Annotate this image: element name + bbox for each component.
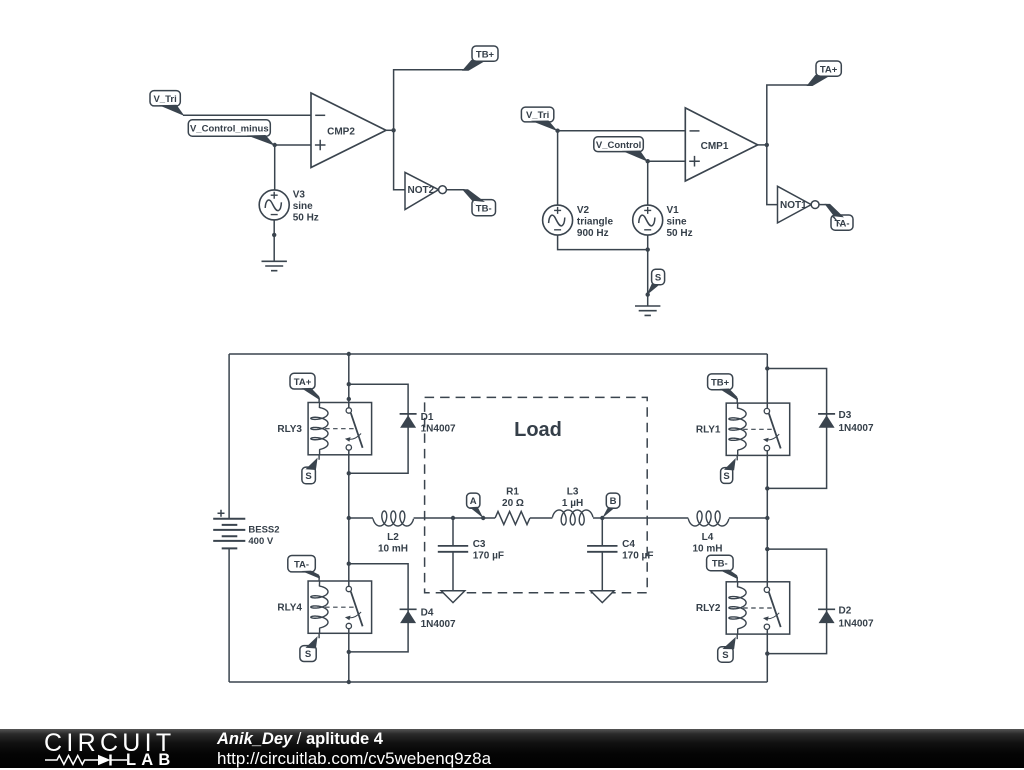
capacitor C3 170uF [438,518,504,591]
svg-text:RLY2: RLY2 [696,603,721,614]
node V_Tri right [555,129,559,133]
svg-text:TA+: TA+ [820,64,838,75]
svg-text:RLY1: RLY1 [696,424,721,435]
svg-text:TB+: TB+ [476,49,495,60]
flag TB- RLY2 [707,555,738,579]
wire V1 bottom to ground [647,235,649,295]
node C3 top [451,516,455,520]
flag TB+ [462,46,498,71]
op-amp CMP2 [311,93,386,168]
svg-text:V_Tri: V_Tri [526,110,549,121]
wire NOT1 to TA- [819,204,827,206]
flag S sources [647,269,665,295]
source V1 sine 50Hz [633,205,693,239]
svg-text:V_Control: V_Control [596,140,641,151]
node D1 top [347,382,351,386]
node D2 top [765,547,769,551]
wire D4 loop [349,564,408,652]
svg-text:C4: C4 [622,539,635,550]
node D3 bottom [765,486,769,490]
flag S RLY1 [721,458,736,483]
wire CMP1 output [758,144,767,146]
svg-text:L2: L2 [387,532,399,543]
wire D3 loop [767,369,826,489]
svg-text:V2: V2 [577,205,590,216]
wire D1 loop [349,384,408,473]
svg-text:10 mH: 10 mH [692,544,722,555]
svg-text:S: S [655,273,661,284]
svg-text:TA-: TA- [294,559,309,570]
load box dashed [425,397,648,592]
wire plus input CMP1 [648,160,686,162]
svg-text:RLY3: RLY3 [277,424,302,435]
svg-text:D1: D1 [421,412,434,423]
svg-text:1N4007: 1N4007 [839,423,874,434]
capacitor C4 170uF [587,518,653,591]
svg-text:50 Hz: 50 Hz [667,228,693,239]
ground C4 [591,591,615,603]
svg-text:RLY4: RLY4 [277,602,302,613]
svg-text:R1: R1 [506,487,519,498]
wire right bus [766,354,768,682]
flag V_Control [594,137,648,162]
svg-text:CMP1: CMP1 [701,141,729,152]
svg-text:S: S [305,471,311,482]
svg-text:D4: D4 [421,608,434,619]
svg-text:1N4007: 1N4007 [839,619,874,630]
node B anchor C4 [600,516,604,520]
relay RLY4 [277,576,371,638]
node CMP1 output [765,143,769,147]
source V3 sine 50Hz [259,190,319,224]
node mid left bus [347,516,351,520]
wire minus input CMP2 [183,114,311,116]
svg-text:V_Control_minus: V_Control_minus [190,124,269,135]
node D1 bottom [347,471,351,475]
node sources common [646,247,650,251]
wire L4 to right bus [729,517,767,519]
svg-text:triangle: triangle [577,216,614,227]
svg-text:170 µF: 170 µF [622,551,653,562]
flag TA- RLY4 [288,556,320,579]
relay RLY3 [277,398,371,460]
inverter NOT2 [405,172,446,209]
node S anchor [646,292,650,296]
svg-text:900 Hz: 900 Hz [577,228,609,239]
wire L2 to R1 [414,517,496,519]
svg-text:L4: L4 [702,532,714,543]
wire top rail [229,353,767,355]
wire L3 to L4 [593,517,688,519]
wire V2 bottom to V1 bottom [558,235,648,250]
node D4 top [347,562,351,566]
wire bottom rail [229,681,767,683]
wire to TA+ [767,85,810,145]
svg-text:Load: Load [514,419,562,441]
node A anchor [481,516,485,520]
node D2 bottom [765,651,769,655]
wire CMP2 output [386,129,394,131]
resistor R1 20ohm [495,487,530,525]
relay RLY1 [696,398,790,460]
node bottom rail left bus [347,680,351,684]
wire minus input CMP1 [558,130,686,132]
inductor L2 10mH [373,511,414,555]
wire plus input CMP2 [275,144,311,146]
svg-text:10 mH: 10 mH [378,544,408,555]
ground C3 [441,591,465,603]
inverter NOT1 [778,186,819,223]
svg-text:TB-: TB- [476,203,492,214]
svg-text:V3: V3 [293,190,306,201]
flag TA+ [807,61,842,86]
source V2 triangle 900Hz [543,205,614,239]
node top rail left bus [347,352,351,356]
svg-text:TA+: TA+ [294,377,312,388]
footer bar [0,729,1024,768]
svg-text:S: S [723,471,729,482]
svg-text:sine: sine [293,201,313,212]
svg-text:C3: C3 [473,539,486,550]
svg-text:B: B [610,496,617,507]
node D4 bottom [347,650,351,654]
wire to NOT2 [394,130,405,189]
battery BESS2 400V [213,354,279,682]
flag TB- [462,189,496,216]
svg-text:20 Ω: 20 Ω [502,498,524,509]
node RLY3 pin [347,397,351,401]
flag A [467,493,484,518]
node below V3 [272,233,276,237]
wire to V3 [274,145,276,190]
inductor L4 10mH [688,511,729,555]
svg-text:V_Tri: V_Tri [153,94,176,105]
svg-text:D2: D2 [839,606,852,617]
diode D3 1N4007 [818,410,874,434]
wire V_Tri to V2 [557,131,559,206]
relay RLY2 [696,577,790,639]
flag S RLY3 [302,458,318,484]
ground V3 [262,261,287,270]
flag TA- [825,204,854,230]
svg-text:1N4007: 1N4007 [421,424,456,435]
svg-text:S: S [722,650,728,661]
wire left bus [348,354,350,682]
flag V_Tri right [521,107,557,131]
flag V_Control_minus [188,120,275,146]
node mid right bus [765,516,769,520]
flag B [602,493,620,518]
ground sources [635,306,660,315]
svg-text:1N4007: 1N4007 [421,619,456,630]
svg-text:sine: sine [667,216,687,227]
svg-text:S: S [305,649,311,660]
flag TB+ RLY1 [708,374,738,401]
flag S RLY4 [300,636,318,661]
wire V3 to ground [273,219,275,261]
svg-text:A: A [470,496,477,507]
wire D2 loop [767,549,826,654]
wire to NOT1 [767,145,778,205]
node D3 top [765,366,769,370]
wire R1 to L3 [530,517,553,519]
wire V_Control to V1 [647,161,649,205]
svg-text:CMP2: CMP2 [327,127,355,138]
op-amp CMP1 [685,108,757,181]
svg-text:D3: D3 [839,410,852,421]
svg-text:L3: L3 [567,487,579,498]
wire mid rail left [349,517,373,519]
svg-text:NOT2: NOT2 [408,185,435,196]
flag V_Tri left [150,91,185,116]
svg-text:1 µH: 1 µH [562,498,583,509]
svg-text:NOT1: NOT1 [780,200,807,211]
diode D4 1N4007 [400,608,456,631]
diode D1 1N4007 [400,412,456,435]
inductor L3 1uH [552,487,593,525]
flag TA+ RLY3 [290,373,320,400]
svg-text:170 µF: 170 µF [473,551,504,562]
node V_Control [646,159,650,163]
wire NOT2 to TB- [446,189,464,191]
flag S RLY2 [718,637,736,662]
svg-text:BESS2: BESS2 [248,525,279,536]
svg-text:400 V: 400 V [248,536,273,547]
node CMP2 output [391,128,395,132]
wire to TB+ [394,70,467,131]
svg-text:V1: V1 [667,205,680,216]
svg-text:TB-: TB- [712,559,728,570]
node junction V_Control_minus [273,143,277,147]
svg-text:TB+: TB+ [711,377,730,388]
wire to ground S [647,295,649,306]
diode D2 1N4007 [818,606,874,630]
svg-text:50 Hz: 50 Hz [293,213,319,224]
